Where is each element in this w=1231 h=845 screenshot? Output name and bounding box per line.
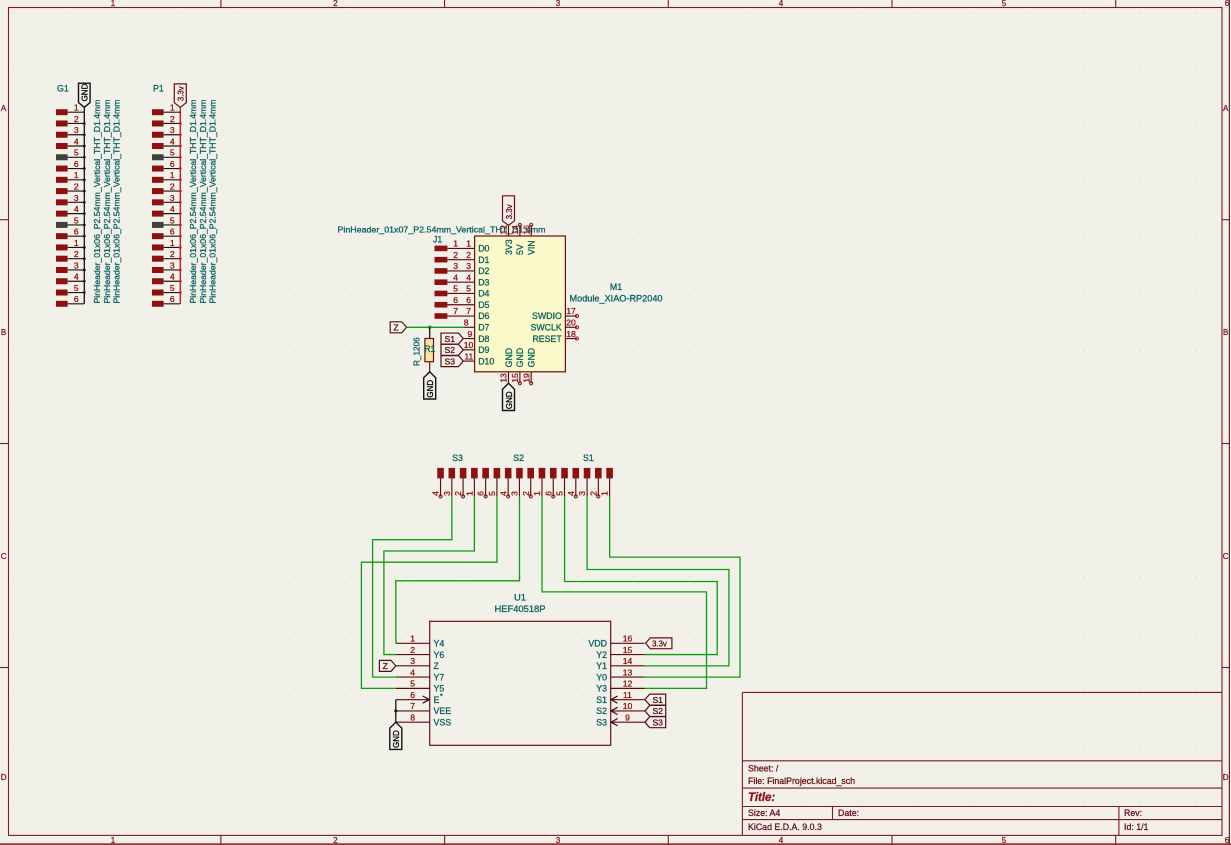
svg-text:7: 7 <box>410 701 415 711</box>
svg-text:VIN: VIN <box>527 240 537 255</box>
svg-text:1: 1 <box>170 170 175 180</box>
svg-text:D5: D5 <box>478 300 489 310</box>
svg-text:2: 2 <box>170 181 175 191</box>
svg-text:Y4: Y4 <box>434 639 445 649</box>
svg-text:Rev:: Rev: <box>1124 808 1142 818</box>
svg-text:18: 18 <box>566 329 576 339</box>
svg-text:3: 3 <box>74 193 79 203</box>
svg-text:3: 3 <box>510 491 520 496</box>
svg-text:2: 2 <box>466 250 471 260</box>
svg-text:E: E <box>434 695 440 705</box>
svg-text:9: 9 <box>625 712 630 722</box>
svg-text:R_1206: R_1206 <box>412 337 421 366</box>
svg-text:GND: GND <box>505 391 514 409</box>
svg-text:6: 6 <box>466 295 471 305</box>
svg-text:D8: D8 <box>478 334 489 344</box>
svg-text:Y2: Y2 <box>596 650 607 660</box>
svg-text:Title:: Title: <box>748 792 775 804</box>
svg-text:16: 16 <box>623 634 633 644</box>
svg-text:GND: GND <box>504 348 514 368</box>
svg-text:6: 6 <box>170 294 175 304</box>
svg-text:2: 2 <box>410 645 415 655</box>
svg-text:6: 6 <box>453 295 458 305</box>
svg-text:5: 5 <box>410 679 415 689</box>
svg-text:GND: GND <box>81 83 90 101</box>
svg-text:A: A <box>1 104 7 113</box>
svg-text:Y6: Y6 <box>434 650 445 660</box>
svg-text:1: 1 <box>600 491 610 496</box>
svg-text:PinHeader_01x06_P2.54mm_Vertic: PinHeader_01x06_P2.54mm_Vertical_THT_D1.… <box>198 100 208 304</box>
svg-text:U1: U1 <box>514 592 526 603</box>
svg-text:P1: P1 <box>153 84 164 94</box>
svg-text:S1: S1 <box>596 695 607 705</box>
svg-text:12: 12 <box>499 225 509 235</box>
svg-text:S2: S2 <box>513 453 524 463</box>
svg-text:Y5: Y5 <box>434 684 445 694</box>
svg-text:2: 2 <box>170 249 175 259</box>
svg-text:9: 9 <box>468 329 473 339</box>
svg-text:1: 1 <box>466 239 471 249</box>
svg-text:S3: S3 <box>652 717 663 727</box>
svg-text:Y0: Y0 <box>596 672 607 682</box>
svg-text:J1: J1 <box>433 235 442 245</box>
svg-text:11: 11 <box>623 690 632 700</box>
svg-text:GND: GND <box>392 730 401 748</box>
svg-text:5: 5 <box>487 491 497 496</box>
svg-text:5: 5 <box>74 148 79 158</box>
svg-text:2: 2 <box>74 249 79 259</box>
svg-text:7: 7 <box>453 306 458 316</box>
svg-text:3: 3 <box>453 261 458 271</box>
svg-text:S2: S2 <box>596 706 607 716</box>
svg-text:13: 13 <box>623 667 633 677</box>
svg-text:4: 4 <box>74 136 79 146</box>
svg-text:15: 15 <box>623 645 633 655</box>
svg-text:4: 4 <box>170 272 175 282</box>
svg-text:3: 3 <box>170 125 175 135</box>
svg-text:5: 5 <box>466 284 471 294</box>
svg-text:HEF40518P: HEF40518P <box>494 603 545 614</box>
svg-text:S1: S1 <box>652 695 663 705</box>
svg-text:1: 1 <box>410 634 415 644</box>
svg-text:D10: D10 <box>478 356 494 366</box>
svg-text:6: 6 <box>170 159 175 169</box>
svg-text:1: 1 <box>532 491 542 496</box>
svg-text:2: 2 <box>74 181 79 191</box>
svg-text:2: 2 <box>170 114 175 124</box>
svg-text:2: 2 <box>333 836 338 845</box>
svg-text:4: 4 <box>170 204 175 214</box>
svg-text:R1: R1 <box>424 344 435 354</box>
svg-text:S3: S3 <box>444 356 455 366</box>
svg-text:2: 2 <box>74 114 79 124</box>
svg-text:S2: S2 <box>444 345 455 355</box>
svg-text:VDD: VDD <box>588 639 607 649</box>
svg-text:D4: D4 <box>478 289 489 299</box>
svg-text:SWDIO: SWDIO <box>532 311 562 321</box>
svg-text:19: 19 <box>521 373 531 383</box>
svg-text:5: 5 <box>170 283 175 293</box>
svg-text:C: C <box>1 552 7 561</box>
svg-text:1: 1 <box>74 103 79 113</box>
svg-text:1: 1 <box>111 0 116 8</box>
svg-text:3: 3 <box>442 491 452 496</box>
svg-text:10: 10 <box>623 701 633 711</box>
svg-text:D9: D9 <box>478 345 489 355</box>
svg-text:4: 4 <box>410 667 415 677</box>
svg-text:3: 3 <box>170 260 175 270</box>
svg-text:4: 4 <box>74 272 79 282</box>
svg-text:PinHeader_01x06_P2.54mm_Vertic: PinHeader_01x06_P2.54mm_Vertical_THT_D1.… <box>207 100 217 304</box>
svg-text:5: 5 <box>1002 836 1007 845</box>
svg-text:1: 1 <box>170 103 175 113</box>
svg-text:6: 6 <box>1225 0 1230 8</box>
svg-text:5: 5 <box>1002 0 1007 8</box>
svg-text:4: 4 <box>170 136 175 146</box>
svg-text:B: B <box>1223 328 1228 337</box>
svg-text:2: 2 <box>333 0 338 8</box>
svg-text:Z: Z <box>383 661 388 671</box>
svg-text:7: 7 <box>466 306 471 316</box>
svg-text:SWCLK: SWCLK <box>531 322 562 332</box>
svg-text:2: 2 <box>453 250 458 260</box>
svg-text:Z: Z <box>393 322 398 332</box>
svg-text:D: D <box>1 773 7 782</box>
svg-text:3: 3 <box>556 836 561 845</box>
svg-text:3: 3 <box>74 125 79 135</box>
svg-text:6: 6 <box>74 227 79 237</box>
svg-text:8: 8 <box>464 317 469 327</box>
svg-text:GND: GND <box>426 380 435 398</box>
svg-text:4: 4 <box>779 0 784 8</box>
svg-text:Module_XIAO-RP2040: Module_XIAO-RP2040 <box>570 293 663 303</box>
svg-text:4: 4 <box>74 204 79 214</box>
svg-text:4: 4 <box>779 836 784 845</box>
svg-text:Size: A4: Size: A4 <box>748 808 780 818</box>
svg-text:PinHeader_01x06_P2.54mm_Vertic: PinHeader_01x06_P2.54mm_Vertical_THT_D1.… <box>92 99 102 303</box>
svg-text:3: 3 <box>556 0 561 8</box>
svg-text:KiCad E.D.A. 9.0.3: KiCad E.D.A. 9.0.3 <box>748 822 822 832</box>
svg-text:5: 5 <box>170 215 175 225</box>
svg-text:1: 1 <box>111 836 116 845</box>
svg-text:D: D <box>1223 773 1229 782</box>
svg-text:8: 8 <box>410 712 415 722</box>
svg-text:6: 6 <box>170 227 175 237</box>
svg-text:5: 5 <box>555 491 565 496</box>
svg-text:RESET: RESET <box>532 334 562 344</box>
svg-text:D6: D6 <box>478 311 489 321</box>
svg-text:GND: GND <box>527 348 537 368</box>
svg-text:1: 1 <box>74 170 79 180</box>
svg-text:Sheet: /: Sheet: / <box>748 764 779 774</box>
svg-text:12: 12 <box>623 679 633 689</box>
svg-text:3: 3 <box>74 260 79 270</box>
svg-text:C: C <box>1223 552 1229 561</box>
svg-text:11: 11 <box>464 351 473 361</box>
svg-text:VEE: VEE <box>434 706 452 716</box>
svg-text:A: A <box>1223 104 1229 113</box>
svg-text:5: 5 <box>74 215 79 225</box>
svg-text:3.3v: 3.3v <box>652 639 667 648</box>
svg-text:Id: 1/1: Id: 1/1 <box>1124 822 1149 832</box>
svg-text:6: 6 <box>1225 836 1230 845</box>
svg-text:3: 3 <box>577 491 587 496</box>
svg-text:3V3: 3V3 <box>504 239 514 255</box>
svg-text:Y1: Y1 <box>596 661 607 671</box>
svg-text:3.3v: 3.3v <box>505 204 514 219</box>
svg-text:M1: M1 <box>610 282 622 292</box>
svg-text:Y3: Y3 <box>596 684 607 694</box>
svg-text:G1: G1 <box>57 84 69 94</box>
svg-text:1: 1 <box>453 239 458 249</box>
svg-text:4: 4 <box>453 272 458 282</box>
svg-text:5: 5 <box>74 283 79 293</box>
svg-text:S1: S1 <box>444 334 455 344</box>
svg-text:5: 5 <box>170 148 175 158</box>
svg-text:D1: D1 <box>478 255 489 265</box>
svg-text:5V: 5V <box>515 244 525 255</box>
svg-text:S3: S3 <box>452 453 463 463</box>
svg-text:Date:: Date: <box>838 808 859 818</box>
svg-text:1: 1 <box>170 238 175 248</box>
svg-text:3.3v: 3.3v <box>177 86 186 101</box>
svg-text:PinHeader_01x06_P2.54mm_Vertic: PinHeader_01x06_P2.54mm_Vertical_THT_D1.… <box>111 100 121 304</box>
svg-text:S1: S1 <box>583 453 594 463</box>
svg-text:GND: GND <box>515 348 525 368</box>
svg-text:PinHeader_01x06_P2.54mm_Vertic: PinHeader_01x06_P2.54mm_Vertical_THT_D1.… <box>188 99 198 303</box>
svg-text:1: 1 <box>464 491 474 496</box>
svg-text:20: 20 <box>566 317 576 327</box>
svg-text:3: 3 <box>410 656 415 666</box>
svg-text:13: 13 <box>499 373 509 383</box>
svg-text:D2: D2 <box>478 266 489 276</box>
svg-text:15: 15 <box>510 373 520 383</box>
svg-text:D7: D7 <box>478 322 489 332</box>
svg-text:VSS: VSS <box>434 717 452 727</box>
svg-text:5: 5 <box>453 284 458 294</box>
svg-text:1: 1 <box>74 238 79 248</box>
svg-text:3: 3 <box>170 193 175 203</box>
svg-text:*: * <box>440 694 443 701</box>
svg-text:6: 6 <box>74 159 79 169</box>
svg-text:17: 17 <box>566 306 576 316</box>
svg-text:File: FinalProject.kicad_sch: File: FinalProject.kicad_sch <box>748 776 855 786</box>
svg-text:B: B <box>1 328 6 337</box>
svg-text:14: 14 <box>623 656 633 666</box>
svg-text:6: 6 <box>74 294 79 304</box>
svg-text:6: 6 <box>410 690 415 700</box>
svg-text:4: 4 <box>466 272 471 282</box>
svg-text:Z: Z <box>434 661 440 671</box>
svg-text:S3: S3 <box>596 717 607 727</box>
svg-text:3: 3 <box>466 261 471 271</box>
svg-text:D0: D0 <box>478 244 489 254</box>
svg-text:S2: S2 <box>652 706 663 716</box>
svg-text:Y7: Y7 <box>434 672 445 682</box>
svg-text:10: 10 <box>464 340 474 350</box>
svg-text:PinHeader_01x06_P2.54mm_Vertic: PinHeader_01x06_P2.54mm_Vertical_THT_D1.… <box>102 100 112 304</box>
svg-text:D3: D3 <box>478 277 489 287</box>
